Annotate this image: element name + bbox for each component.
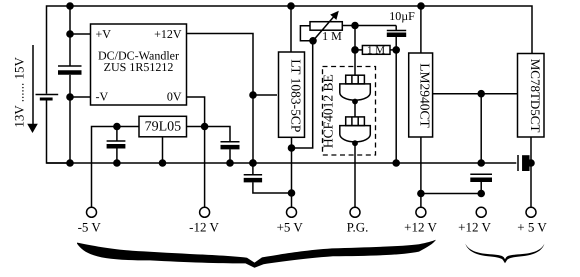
wire +V — [70, 33, 91, 35]
node LT1083 output — [288, 144, 296, 152]
node C3 ground — [226, 159, 234, 167]
svg-text:13V ...... 15V: 13V ...... 15V — [12, 57, 27, 128]
node R1 right / C4 bottom — [392, 46, 400, 54]
wire left vertical lower segment — [69, 75, 71, 163]
node +12V link left — [417, 190, 425, 198]
svg-text:+V: +V — [96, 27, 112, 41]
node C4 ground — [392, 159, 400, 167]
wire 79L05 input from -12V — [187, 127, 231, 142]
input voltage arrow — [27, 45, 38, 133]
potentiometer P1 1M — [300, 11, 342, 41]
svg-text:79L05: 79L05 — [145, 120, 182, 135]
node -12V / 79L05 input — [201, 123, 209, 131]
node LT1083 gnd tap — [249, 91, 257, 99]
wire LT1083 output to +5V — [291, 137, 293, 207]
node gnd drop — [477, 90, 485, 98]
terminal -12V — [200, 207, 210, 217]
wire top rail (battery+) — [47, 6, 533, 94]
svg-text:LT 1083-5CP: LT 1083-5CP — [289, 59, 304, 132]
wire LM2940 gnd pin to MC78T05 gnd — [433, 93, 518, 95]
capacitor C5 (+12V filter) — [470, 174, 492, 193]
node A2 1M left — [351, 46, 359, 54]
node +12V link right — [477, 190, 485, 198]
resistor R1 1M — [362, 46, 390, 55]
node C2 ground — [113, 159, 121, 167]
node gnd rail right — [477, 159, 485, 167]
wire 79L05 ground pin — [162, 137, 164, 163]
svg-text:+ 5 V: + 5 V — [517, 220, 547, 235]
svg-text:+12 V: +12 V — [458, 220, 491, 235]
node top-left x70 — [66, 2, 74, 10]
gate G1 (NAND) — [340, 75, 371, 104]
node +5V left — [288, 189, 296, 197]
node A poti right — [351, 22, 359, 30]
node +V — [66, 30, 74, 38]
wire LM2940 output — [420, 137, 422, 207]
capacitor C6 (+5V right filter, series in rail) — [518, 155, 526, 171]
terminal +12V second — [476, 207, 486, 217]
wire +12V link — [421, 193, 481, 195]
node 79L05 gnd — [159, 159, 167, 167]
wire R1 left — [355, 49, 362, 51]
gate G2 (NAND) — [340, 117, 371, 146]
wire LM2940 input — [420, 6, 422, 53]
svg-text:+12V: +12V — [154, 27, 182, 41]
svg-text:1 M: 1 M — [367, 44, 385, 56]
wire R1 right — [390, 49, 396, 51]
terminal P.G. — [350, 207, 360, 217]
wire feedback to poti — [292, 41, 313, 148]
battery B1 — [36, 95, 59, 100]
node top LT1083 — [287, 2, 295, 10]
wire MC78T05 output — [530, 138, 532, 208]
terminal +5V left — [287, 207, 297, 217]
capacitor C7 (+5V left filter) — [244, 159, 292, 193]
svg-text:-V: -V — [96, 90, 109, 104]
regulator U2 LT1083-5CP — [279, 52, 305, 137]
wire battery minus to ground rail — [47, 101, 71, 164]
node poti wiper — [309, 37, 317, 45]
wire LT1083 gnd pin — [253, 94, 277, 96]
wire poti right to node A — [342, 25, 396, 27]
svg-text:10µF: 10µF — [389, 9, 415, 23]
brace small (drive connector group) — [465, 244, 544, 264]
svg-text:LM2940CT: LM2940CT — [418, 63, 433, 128]
svg-text:HCF4012 BE: HCF4012 BE — [321, 74, 336, 148]
terminal +5V right — [526, 207, 536, 217]
node battery minus rail — [66, 159, 74, 167]
svg-text:MC78TD5CT: MC78TD5CT — [528, 59, 543, 133]
svg-text:1 M: 1 M — [322, 29, 342, 43]
svg-text:+5 V: +5 V — [277, 220, 304, 235]
DC/DC converter U1 — [91, 24, 187, 105]
regulator U4 LM2940CT — [409, 53, 433, 137]
wire 0V output (-12V line) — [187, 97, 205, 207]
capacitor C4 10uF — [387, 26, 406, 164]
capacitor C2 (-5V filter) — [107, 127, 126, 164]
wire 79L05 output to -5V — [92, 127, 140, 208]
node -5V filter tap — [113, 123, 121, 131]
wire -V — [70, 96, 91, 98]
svg-text:-12 V: -12 V — [189, 220, 219, 235]
wire node A down to gate — [354, 26, 356, 76]
svg-text:ZUS 1R51212: ZUS 1R51212 — [104, 60, 174, 74]
capacitor C1 input filter — [58, 66, 82, 73]
wire left vertical upper segment — [69, 6, 71, 66]
wire LT1083 input — [290, 6, 292, 52]
regulator U5 MC78T05CT — [518, 54, 545, 138]
node -V — [66, 93, 74, 101]
svg-text:-5 V: -5 V — [78, 220, 102, 235]
brace large (PC connector group) — [77, 240, 436, 268]
terminal -5V — [87, 207, 97, 217]
IC U3 HCF4012 dashed box — [323, 67, 376, 156]
wire gnd drop to rail — [480, 94, 482, 163]
svg-text:+12 V: +12 V — [404, 220, 437, 235]
wire G1 out to G2 in — [354, 102, 356, 117]
node top LM2940 — [417, 2, 425, 10]
ground rail — [47, 162, 517, 164]
node +5V right — [527, 159, 535, 167]
wire G2 out to P.G. — [354, 143, 356, 207]
wire +12V output to ground tie — [187, 34, 254, 164]
regulator 79L05 — [139, 116, 187, 137]
capacitor C3 (-12V filter) — [221, 142, 240, 163]
svg-text:0V: 0V — [167, 90, 182, 104]
svg-text:P.G.: P.G. — [347, 220, 369, 235]
node +12V-gnd tie on rail — [249, 159, 257, 167]
terminal +12V first — [416, 207, 426, 217]
